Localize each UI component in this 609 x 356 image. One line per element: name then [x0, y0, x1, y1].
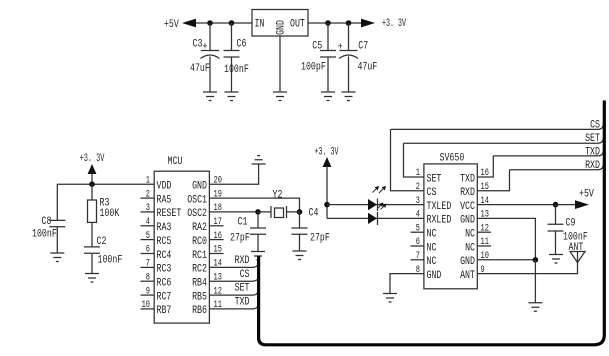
svg-text:100pF: 100pF: [301, 61, 326, 73]
value label 100nF C6: [224, 64, 249, 76]
wire MCU pin12 SET to bus: [209, 289, 258, 295]
wire MCU pin19 OSC1: [209, 198, 299, 212]
svg-text:6: 6: [416, 237, 420, 248]
svg-text:+5V: +5V: [164, 19, 179, 31]
svg-text:6: 6: [146, 245, 150, 256]
svg-text:TXD: TXD: [460, 173, 475, 185]
pin label IN: [255, 19, 265, 31]
wire MCU pin17 stub: [209, 225, 223, 227]
svg-text:NC: NC: [465, 229, 475, 241]
svg-text:27pF: 27pF: [230, 233, 250, 245]
pin label GND rotated: [276, 20, 288, 35]
svg-text:12: 12: [481, 223, 489, 234]
svg-text:RC4: RC4: [157, 250, 172, 262]
wire SV650 pin6 stub: [411, 245, 424, 247]
node +5V arrow: [575, 200, 589, 209]
capacitor C2: [84, 247, 100, 270]
value label C5: [312, 40, 322, 52]
wire MCU pin9 stub: [141, 294, 155, 296]
svg-text:NC: NC: [427, 242, 437, 254]
wire RXLED line: [327, 217, 424, 219]
svg-text:9: 9: [481, 265, 485, 276]
SV650 pin names left: [427, 173, 452, 282]
net label +5V top: [164, 19, 179, 31]
wire SV650 pin9 ANT: [477, 252, 577, 274]
svg-text:ANT: ANT: [569, 242, 584, 254]
wire CS top line: [391, 123, 604, 129]
svg-text:SET: SET: [427, 173, 442, 185]
svg-text:C5: C5: [312, 40, 322, 52]
svg-text:SV650: SV650: [440, 153, 465, 165]
wire SV650 pin16 TXD: [477, 156, 493, 177]
part label MCU: [168, 156, 183, 168]
MCU bus signal labels: [235, 255, 250, 309]
capacitor C9: [548, 205, 564, 251]
svg-text:C3: C3: [193, 39, 203, 51]
svg-text:TXD: TXD: [235, 297, 250, 309]
svg-text:RC6: RC6: [157, 278, 172, 290]
svg-text:CS: CS: [427, 187, 437, 199]
svg-text:C7: C7: [358, 40, 368, 52]
svg-text:RB7: RB7: [157, 305, 172, 317]
svg-text:VDD: VDD: [157, 181, 172, 193]
svg-text:7: 7: [416, 251, 420, 262]
svg-text:IN: IN: [255, 19, 265, 31]
junction dot C7 tap: [346, 20, 352, 26]
svg-text:GND: GND: [192, 181, 207, 193]
svg-text:100nF: 100nF: [224, 64, 249, 76]
ground C9: [549, 251, 563, 264]
svg-text:GND: GND: [427, 270, 442, 282]
svg-text:RB6: RB6: [192, 305, 207, 317]
junction dot C5 tap: [325, 20, 331, 26]
net label +5V right: [579, 188, 594, 200]
svg-text:8: 8: [146, 272, 150, 283]
junction dot crystal left: [255, 209, 261, 215]
svg-text:CS: CS: [590, 119, 600, 131]
svg-text:OSC2: OSC2: [187, 208, 207, 220]
MCU pin numbers left: [142, 175, 150, 311]
value label 100pF C5: [301, 61, 326, 73]
svg-text:100K: 100K: [100, 208, 120, 220]
wire TXLED line: [327, 204, 424, 206]
svg-text:SET: SET: [235, 283, 250, 295]
wire MCU pin18 OSC2: [209, 211, 258, 213]
svg-text:RA2: RA2: [192, 222, 207, 234]
svg-text:RXD: RXD: [235, 255, 250, 267]
junction dot C9 tap: [553, 202, 559, 208]
svg-text:OSC1: OSC1: [187, 194, 207, 206]
part label Y2: [273, 190, 283, 202]
capacitor C5: [320, 23, 336, 88]
capacitor C4: [292, 212, 308, 247]
value label 47uF C3: [190, 63, 210, 75]
capacitor C7: [339, 23, 358, 88]
LED D1 arrows: [373, 188, 385, 193]
junction dot C6 tap: [229, 20, 235, 26]
svg-text:RESET: RESET: [157, 208, 182, 220]
ground C3: [203, 88, 217, 101]
value label R3: [100, 198, 120, 221]
svg-text:Y2: Y2: [273, 190, 283, 202]
svg-text:GND: GND: [460, 215, 475, 227]
svg-text:RC3: RC3: [157, 264, 172, 276]
wire +3.3V to MCU pin1: [57, 173, 154, 184]
svg-text:5: 5: [146, 231, 150, 242]
wire SET top line: [404, 137, 604, 143]
svg-text:RC0: RC0: [192, 236, 207, 248]
MCU pin names right: [187, 181, 207, 318]
svg-text:47uF: 47uF: [358, 61, 378, 73]
wire MCU pin3 stub: [141, 211, 155, 213]
junction dot crystal right: [297, 209, 303, 215]
wire MCU pin11 TXD to bus: [209, 303, 258, 309]
value label C4: [309, 208, 330, 245]
part label SV650: [440, 153, 465, 165]
LED D2 arrows: [378, 205, 385, 210]
svg-text:8: 8: [416, 265, 420, 276]
svg-text:RA5: RA5: [157, 194, 172, 206]
value label C8: [32, 216, 57, 241]
svg-text:16: 16: [481, 168, 489, 179]
junction dot GND join: [533, 257, 539, 263]
node +5V arrow: [182, 19, 196, 28]
svg-text:RXD: RXD: [460, 187, 475, 199]
ground regulator: [273, 88, 287, 101]
wire RXD top line: [510, 164, 604, 170]
capacitor C3: [201, 23, 220, 88]
svg-text:14: 14: [481, 196, 489, 207]
MCU pin names left: [157, 181, 182, 318]
value label C3: [193, 39, 208, 54]
net label +3.3V MCU: [80, 153, 105, 165]
value label C1: [230, 217, 250, 245]
svg-text:2: 2: [146, 189, 150, 200]
svg-text:3: 3: [146, 203, 150, 214]
svg-text:NC: NC: [427, 256, 437, 268]
svg-text:C1: C1: [238, 217, 248, 229]
svg-text:NC: NC: [465, 242, 475, 254]
svg-text:2: 2: [416, 182, 420, 193]
ground C8: [50, 249, 64, 262]
wire MCU pin10 stub: [141, 308, 155, 310]
svg-text:100nF: 100nF: [98, 255, 123, 267]
junction dot pin1 R3: [89, 181, 95, 187]
svg-text:10: 10: [142, 300, 150, 311]
svg-text:4: 4: [146, 217, 150, 228]
svg-text:3: 3: [416, 196, 420, 207]
svg-text:C4: C4: [309, 208, 319, 220]
MCU U2 box: [154, 171, 209, 323]
wire +3.3V vertical LED feed: [326, 166, 328, 218]
svg-text:+3. 3V: +3. 3V: [80, 153, 105, 165]
pin label OUT: [290, 19, 305, 31]
svg-text:15: 15: [481, 182, 489, 193]
node +3.3V arrow MCU: [88, 164, 97, 174]
svg-text:16: 16: [214, 231, 222, 242]
svg-text:C2: C2: [97, 236, 107, 248]
ground C2: [85, 270, 99, 283]
ground C5: [321, 88, 335, 101]
wire MCU pin5 stub: [141, 239, 155, 241]
svg-text:NC: NC: [427, 229, 437, 241]
node +3.3V arrow right: [361, 19, 375, 28]
resistor R3: [88, 184, 97, 247]
svg-text:C6: C6: [237, 39, 247, 51]
svg-text:+3. 3V: +3. 3V: [315, 147, 339, 159]
wire MCU pin2 stub: [141, 197, 155, 199]
svg-text:17: 17: [214, 217, 222, 228]
SV650 pin names right: [460, 173, 475, 282]
ground C6: [225, 88, 239, 101]
svg-text:11: 11: [481, 237, 489, 248]
svg-text:RXLED: RXLED: [427, 215, 452, 227]
wire SV650 pin1 SET vertical: [404, 143, 424, 177]
svg-text:RXD: RXD: [585, 160, 600, 172]
svg-text:RC1: RC1: [192, 250, 207, 262]
svg-text:+: +: [203, 42, 208, 54]
svg-text:GND: GND: [276, 20, 288, 35]
svg-text:C9: C9: [566, 218, 576, 230]
svg-text:RB5: RB5: [192, 291, 207, 303]
capacitor C6: [224, 23, 240, 88]
bus signal labels right edge: [585, 119, 600, 172]
svg-text:RB4: RB4: [192, 278, 207, 290]
svg-text:SET: SET: [585, 133, 600, 145]
ground C1: [251, 248, 265, 261]
junction dot TXLED branch: [324, 202, 330, 208]
svg-text:13: 13: [214, 272, 222, 283]
svg-text:+3. 3V: +3. 3V: [382, 18, 406, 30]
svg-text:1: 1: [416, 168, 420, 179]
wire MCU pin8 stub: [141, 280, 155, 282]
MCU pin numbers right: [214, 175, 222, 311]
svg-text:100nF: 100nF: [32, 229, 57, 241]
svg-text:CS: CS: [240, 269, 250, 281]
svg-text:14: 14: [214, 259, 222, 270]
wire MCU pin7 stub: [141, 266, 155, 268]
LED D2 RXLED: [368, 213, 377, 224]
wire SV650 pin14 VCC +5V: [477, 204, 583, 206]
part label ANT: [569, 242, 584, 254]
svg-text:MCU: MCU: [168, 156, 183, 168]
wire SV650 pin12 stub: [477, 231, 491, 233]
svg-text:15: 15: [214, 245, 222, 256]
wire regulator GND pin: [279, 36, 281, 88]
wire +5V rail to regulator: [186, 22, 252, 24]
svg-text:27pF: 27pF: [310, 233, 330, 245]
wire MCU pin6 stub: [141, 253, 155, 255]
net label +3.3V SV650: [315, 147, 339, 159]
svg-text:GND: GND: [460, 256, 475, 268]
crystal Y2: [258, 206, 300, 218]
node +3.3V arrow SV650: [323, 157, 332, 167]
svg-text:TXLED: TXLED: [427, 201, 452, 213]
svg-text:ANT: ANT: [460, 270, 475, 282]
svg-text:+5V: +5V: [579, 188, 594, 200]
wire SV650 pin8 GND: [390, 274, 424, 290]
wire SV650 pin10 GND: [477, 259, 535, 261]
regulator U1 box: [252, 10, 308, 37]
bus thick line: [259, 101, 605, 345]
antenna ANT: [570, 252, 585, 263]
wire SV650 pin15 RXD: [477, 170, 509, 191]
wire SV650 pin13 GND: [477, 218, 535, 260]
wire MCU pin14 RXD to bus: [209, 261, 258, 267]
wire SV650 pin5 stub: [411, 231, 424, 233]
svg-text:4: 4: [416, 210, 420, 221]
value label C9: [563, 218, 588, 244]
svg-text:RC7: RC7: [157, 291, 172, 303]
SV650 pin numbers left: [416, 168, 420, 276]
value label C7: [338, 40, 368, 53]
capacitor C1: [250, 212, 266, 248]
svg-text:12: 12: [214, 286, 222, 297]
wire TXD top line: [493, 150, 603, 156]
wire MCU pin13 CS to bus: [209, 275, 258, 281]
net label +3.3V top right: [382, 18, 406, 30]
svg-text:TXD: TXD: [585, 146, 600, 158]
svg-text:20: 20: [214, 175, 222, 186]
svg-text:C8: C8: [42, 216, 52, 228]
ground C7: [342, 88, 356, 101]
value label C2: [97, 236, 123, 267]
wire MCU pin16 stub: [209, 239, 223, 241]
ground GND join: [528, 299, 542, 312]
svg-text:RA3: RA3: [157, 222, 172, 234]
SV650 pin numbers right: [481, 168, 489, 276]
svg-text:18: 18: [214, 203, 222, 214]
svg-text:VCC: VCC: [460, 201, 475, 213]
svg-text:5: 5: [416, 223, 420, 234]
LED D1 TXLED: [368, 199, 377, 210]
svg-text:+: +: [338, 41, 343, 53]
wire SV650 pin11 stub: [477, 245, 491, 247]
SV650 U3 box: [424, 164, 477, 289]
wire MCU pin4 stub: [141, 225, 155, 227]
svg-text:RC5: RC5: [157, 236, 172, 248]
wire SV650 pin7 stub: [411, 259, 424, 261]
svg-text:RC2: RC2: [192, 264, 207, 276]
wire SV650 pin2 CS vertical: [391, 129, 424, 190]
junction dot C3 tap: [207, 20, 213, 26]
wire GND join down: [534, 260, 536, 299]
ground pin20 inverted: [252, 156, 266, 164]
ground SV650 pin8: [383, 290, 397, 303]
svg-text:7: 7: [146, 259, 150, 270]
ground C4: [293, 247, 307, 260]
svg-text:10: 10: [481, 251, 489, 262]
svg-text:11: 11: [214, 300, 222, 311]
capacitor C8: [49, 184, 65, 249]
value label 47uF C7: [358, 61, 378, 73]
svg-text:9: 9: [146, 286, 150, 297]
wire MCU pin15 stub: [209, 253, 223, 255]
svg-text:1: 1: [146, 175, 150, 186]
wire MCU pin20 to ground: [209, 164, 258, 184]
svg-text:47uF: 47uF: [190, 63, 210, 75]
value label C6: [237, 39, 247, 51]
wire regulator output rail: [308, 22, 369, 24]
svg-text:13: 13: [481, 210, 489, 221]
svg-text:OUT: OUT: [290, 19, 305, 31]
svg-text:19: 19: [214, 189, 222, 200]
